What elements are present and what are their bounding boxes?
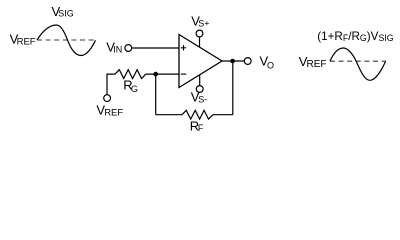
label VSIG (input signal): [52, 4, 74, 19]
wire feedback left vertical: [155, 74, 157, 115]
input sine waveform: [37, 25, 96, 56]
svg-text:S+: S+: [198, 18, 209, 28]
terminal VO (open circle): [244, 58, 251, 65]
svg-text:SIG: SIG: [58, 9, 74, 19]
svg-text:F: F: [198, 123, 204, 133]
wire feedback bottom right segment: [213, 114, 233, 116]
junction inverting input node: [153, 72, 158, 77]
wire RG to inverting input node: [146, 73, 179, 75]
output sine waveform: [330, 48, 386, 80]
svg-text:REF: REF: [17, 36, 36, 47]
wire VIN to op-amp + input: [132, 47, 179, 49]
svg-text:REF: REF: [307, 59, 327, 70]
svg-text:REF: REF: [104, 107, 123, 118]
label VREF (left waveform): [10, 31, 36, 47]
label RF: [190, 118, 204, 133]
resistor RG zigzag: [115, 70, 146, 79]
terminal VIN (open circle): [125, 45, 132, 52]
label VIN: [106, 40, 122, 55]
wire feedback bottom left segment: [156, 114, 182, 116]
terminal VS- (open circle): [196, 86, 203, 93]
resistor RF zigzag: [182, 110, 213, 119]
label VS+: [191, 14, 209, 29]
label VS-: [191, 90, 208, 105]
svg-text:O: O: [267, 60, 274, 70]
svg-text:G: G: [131, 84, 138, 94]
label VO: [260, 54, 275, 71]
node VREF dashed reference line (right waveform): [330, 60, 386, 62]
op-amp + input marker: [181, 45, 186, 50]
node VREF dashed reference line (left waveform): [37, 39, 96, 41]
label VREF (bottom terminal): [96, 103, 123, 119]
junction output node: [230, 59, 235, 64]
wire op-amp output to VO terminal: [222, 60, 244, 62]
wire feedback right vertical to output node: [232, 61, 234, 115]
svg-text:S-: S-: [198, 95, 207, 105]
terminal VREF bottom (open circle): [104, 95, 111, 102]
label RG: [123, 78, 138, 94]
label output amplitude formula (1+RF/RG)VSIG: [317, 30, 394, 43]
terminal VS+ (open circle): [196, 30, 203, 37]
wire VS+ to op-amp top edge: [199, 37, 201, 47]
wire RG left lead and corner to VREF terminal: [107, 74, 115, 94]
op-amp U1 triangle: [179, 35, 222, 88]
op-amp - input marker: [181, 73, 186, 75]
label VREF (right waveform): [299, 54, 327, 70]
wire VS- to op-amp bottom edge: [199, 75, 201, 86]
svg-text:IN: IN: [113, 44, 122, 54]
